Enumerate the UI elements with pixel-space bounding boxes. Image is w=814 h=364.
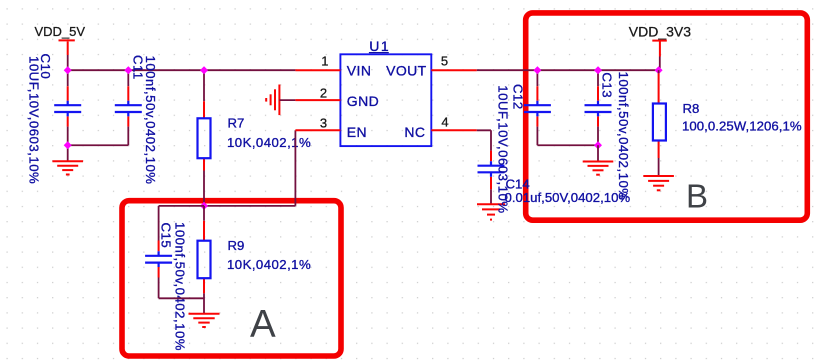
- capacitor C12: [524, 86, 551, 126]
- wire R8 top: [658, 70, 660, 73]
- svg-text:GND: GND: [347, 93, 379, 109]
- capacitor C11: [115, 86, 142, 126]
- svg-text:4: 4: [441, 115, 448, 130]
- svg-text:10K,0402,1%: 10K,0402,1%: [227, 257, 311, 272]
- ground (C13): [583, 162, 614, 175]
- label U1: [369, 38, 390, 54]
- svg-text:100nf,50v,0402,10%: 100nf,50v,0402,10%: [616, 72, 631, 201]
- wire C12 bottom: [536, 127, 538, 146]
- svg-text:3: 3: [320, 116, 327, 131]
- wire main input rail: [68, 69, 296, 71]
- svg-text:10K,0402,1%: 10K,0402,1%: [227, 135, 311, 150]
- wire C14 to ground: [490, 189, 492, 203]
- wire NC to C14: [477, 130, 491, 150]
- ground (C14): [477, 204, 505, 219]
- wire VDD_5V to rail: [67, 55, 69, 70]
- svg-text:100nf,50v,0402,10%: 100nf,50v,0402,10%: [143, 56, 158, 185]
- wire R9 top: [203, 206, 205, 221]
- wire EN vertical: [294, 130, 296, 206]
- node junction (C13/rail): [595, 67, 602, 74]
- svg-text:VDD_3V3: VDD_3V3: [629, 23, 691, 39]
- wire stub to ground: [67, 145, 69, 160]
- node junction (C10 bottom / gnd): [64, 142, 71, 149]
- node junction (C12/rail): [534, 67, 541, 74]
- svg-text:R7: R7: [228, 116, 245, 131]
- svg-text:VDD_5V: VDD_5V: [35, 24, 86, 39]
- wire C10 to C11 ground bus: [68, 144, 129, 146]
- svg-text:C13: C13: [600, 72, 615, 98]
- pin 3 lead: [295, 129, 340, 131]
- wire R7 bottom: [203, 171, 205, 206]
- wire C13 top: [597, 70, 599, 86]
- resistor R7: [198, 101, 211, 170]
- svg-text:R8: R8: [683, 101, 700, 116]
- wire R8 bottom: [658, 158, 660, 176]
- wire VOUT rail: [477, 69, 659, 71]
- pin 2 lead: [295, 99, 340, 101]
- ground (R9): [189, 314, 220, 327]
- svg-text:2: 2: [320, 85, 327, 100]
- svg-text:VIN: VIN: [347, 63, 372, 79]
- wire pin2 gnd stub: [279, 99, 295, 101]
- node junction (R7/rail): [201, 67, 208, 74]
- capacitor C14: [478, 151, 505, 190]
- wire R9 bottom: [203, 293, 205, 313]
- power port VDD_3V3: [629, 23, 691, 56]
- capacitor C10: [54, 86, 81, 126]
- pin 4 lead: [431, 129, 477, 131]
- wire C10 bottom: [67, 127, 69, 146]
- svg-text:VOUT: VOUT: [386, 63, 427, 79]
- wire C15 bottom: [159, 278, 204, 299]
- IC U1 body: [340, 54, 431, 146]
- svg-text:C15: C15: [159, 223, 174, 249]
- svg-text:B: B: [686, 177, 708, 214]
- capacitor C13: [585, 86, 612, 126]
- svg-text:100nf,50v,0402,10%: 100nf,50v,0402,10%: [173, 222, 188, 351]
- svg-text:EN: EN: [347, 124, 367, 140]
- svg-text:R9: R9: [228, 238, 245, 253]
- wire C12 top: [536, 70, 538, 86]
- node junction (C13 bottom / gnd): [595, 142, 602, 149]
- ground (R8): [643, 176, 674, 190]
- wire C11 top: [127, 70, 129, 86]
- svg-text:10UF,10V,0603,10%: 10UF,10V,0603,10%: [496, 85, 511, 213]
- wire C13 bottom: [597, 127, 599, 146]
- svg-text:U1: U1: [369, 38, 390, 54]
- wire C11 bottom: [127, 127, 129, 146]
- wire stub to ground (C13): [597, 145, 599, 161]
- wire VDD_3V3 to rail: [659, 57, 660, 71]
- svg-text:5: 5: [441, 53, 448, 68]
- pin 5 lead: [431, 69, 477, 71]
- svg-text:A: A: [250, 303, 276, 346]
- capacitor C15: [145, 241, 172, 278]
- node junction (R8/VDD_3V3): [655, 67, 662, 74]
- highlight box B: [526, 13, 808, 220]
- wire R7 top: [203, 70, 205, 101]
- pin 2 ground symbol: [266, 85, 279, 116]
- ground (C10): [52, 161, 83, 174]
- wire EN horizontal: [204, 205, 295, 207]
- svg-text:1: 1: [321, 53, 328, 68]
- node junction A (R7/R9/C15/EN): [201, 203, 208, 210]
- power port VDD_5V: [35, 24, 86, 55]
- node junction (C11/rail): [125, 67, 132, 74]
- pin 1 lead: [295, 69, 340, 71]
- svg-text:NC: NC: [404, 124, 425, 140]
- wire C10 top: [67, 70, 69, 86]
- wire C12 to C13 ground bus: [537, 144, 598, 146]
- svg-text:C12: C12: [510, 84, 525, 110]
- resistor R8: [653, 73, 666, 158]
- node junction (C10/rail): [64, 67, 71, 74]
- resistor R9: [198, 221, 211, 294]
- wire C15 branch top: [159, 206, 204, 241]
- svg-text:0.01uf,50V,0402,10%: 0.01uf,50V,0402,10%: [505, 190, 631, 205]
- svg-text:100,0.25W,1206,1%: 100,0.25W,1206,1%: [682, 118, 802, 133]
- svg-text:10UF,10V,0603,10%: 10UF,10V,0603,10%: [26, 56, 41, 184]
- highlight box A: [122, 201, 341, 356]
